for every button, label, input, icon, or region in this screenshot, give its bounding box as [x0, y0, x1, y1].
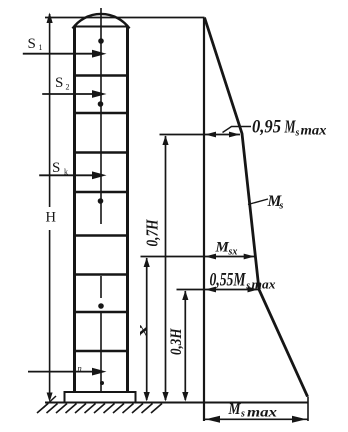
label 0,55Ms max [210, 271, 277, 292]
svg-text:s: s [279, 201, 284, 212]
dimension line x [144, 258, 150, 402]
column section division lines [75, 76, 128, 352]
svg-text:sx: sx [228, 247, 238, 258]
svg-text:0,95: 0,95 [252, 118, 281, 138]
svg-text:n: n [78, 363, 82, 373]
svg-text:max: max [301, 123, 327, 138]
right extension line [307, 397, 309, 422]
svg-text:s: s [295, 128, 300, 139]
svg-text:S: S [52, 160, 60, 176]
dimension line Msmax [204, 416, 308, 423]
svg-text:k: k [64, 168, 68, 177]
svg-text:S: S [55, 75, 63, 91]
svg-text:0,7H: 0,7H [143, 219, 162, 247]
level line 0.55Msmax [177, 287, 260, 293]
foundation base plate [65, 392, 136, 403]
svg-text:s: s [245, 281, 250, 292]
top reference line [45, 17, 205, 19]
svg-text:0,55M: 0,55M [210, 271, 246, 291]
load arrow S2 [42, 90, 106, 98]
label Ms max [228, 401, 278, 420]
load arrow S1 [23, 50, 107, 58]
dimension line H [43, 13, 56, 409]
svg-text:1: 1 [39, 43, 43, 52]
load arrow Sk [39, 171, 106, 179]
svg-text:x: x [135, 325, 152, 339]
label Ms with leader [248, 193, 284, 212]
label Msx [215, 240, 238, 258]
svg-text:max: max [247, 405, 277, 420]
moment curve Ms [205, 18, 308, 397]
moment diagram baseline [203, 18, 205, 422]
dimension line 0.7H [162, 136, 168, 402]
column centerline [100, 8, 102, 392]
ground line [45, 402, 309, 404]
svg-text:0,3H: 0,3H [168, 328, 185, 355]
level line 0.95Msmax [160, 127, 252, 138]
svg-text:S: S [28, 36, 36, 52]
load arrow Sn [28, 368, 107, 376]
level line Msx [141, 254, 255, 260]
dimension line 0.3H [182, 291, 188, 402]
svg-text:M: M [284, 117, 296, 137]
column shaft walls [75, 26, 128, 393]
svg-text:s: s [240, 409, 245, 420]
label 0,95 Ms max [252, 117, 327, 139]
svg-text:M: M [215, 240, 230, 256]
ground hatching [37, 404, 162, 414]
column dome top [73, 14, 130, 29]
centerline node dots [98, 38, 104, 385]
svg-text:M: M [228, 401, 242, 418]
svg-text:2: 2 [66, 83, 70, 92]
svg-text:H: H [46, 210, 57, 226]
svg-text:max: max [252, 277, 277, 292]
